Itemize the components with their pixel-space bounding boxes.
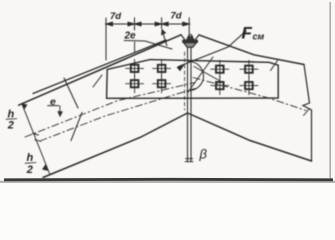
bolt B5 [211,60,229,78]
force Fcm leader arrow [177,31,246,71]
svg-text:β: β [199,147,208,162]
force action line left (to apex washer) [33,40,166,94]
bolt B4 [153,75,171,93]
steep axis cross strokes at joint [188,57,214,93]
dimension 7d/7d top [106,18,189,60]
bolt B3 [126,75,144,93]
svg-text:7d: 7d [110,11,121,22]
svg-text:2: 2 [26,164,33,176]
dimension e left [48,78,82,141]
node: left force line (dash-dot) [40,89,195,142]
svg-text:F: F [242,23,253,42]
tick slash on left edge lines [93,75,102,87]
apex bolt head and washer [181,35,199,48]
svg-text:см: см [253,32,265,42]
arc at joint bearing [189,62,204,91]
tick slash at plate right corner [271,61,278,71]
wire: right rafter bottom edge [188,113,312,161]
bolt B6 [240,60,258,78]
node: right rafter axis (dash-dot) [193,78,306,111]
svg-text:2: 2 [7,120,14,132]
plate: gusset cover plate [107,60,279,99]
wire: break line right end [303,65,312,162]
wire: right rafter top edge [199,35,304,65]
tick on right axis near break [304,109,310,116]
svg-text:e: e [50,96,56,108]
bolt B1 [126,59,144,77]
fraction bars [6,118,17,121]
wire: hidden joint face (dashed) [184,52,186,110]
bolt B8 [240,77,258,95]
wire: left rafter bottom edge [43,113,188,178]
svg-text:2e: 2e [124,31,137,42]
wire: left rafter top edge [19,35,181,105]
dimension h/2 h/2 left [22,104,50,174]
node: left rafter axis (dash-dot) [25,83,195,138]
svg-text:7d: 7d [171,11,182,22]
bolt B2 [153,59,171,77]
page edge vertical line [329,2,331,179]
bolt B7 [211,77,229,95]
paper background [0,0,335,183]
tie rod [185,47,193,161]
label 2e leader [124,41,172,53]
steep arrow to dimension line [161,29,166,45]
scan border bottom [4,178,333,181]
